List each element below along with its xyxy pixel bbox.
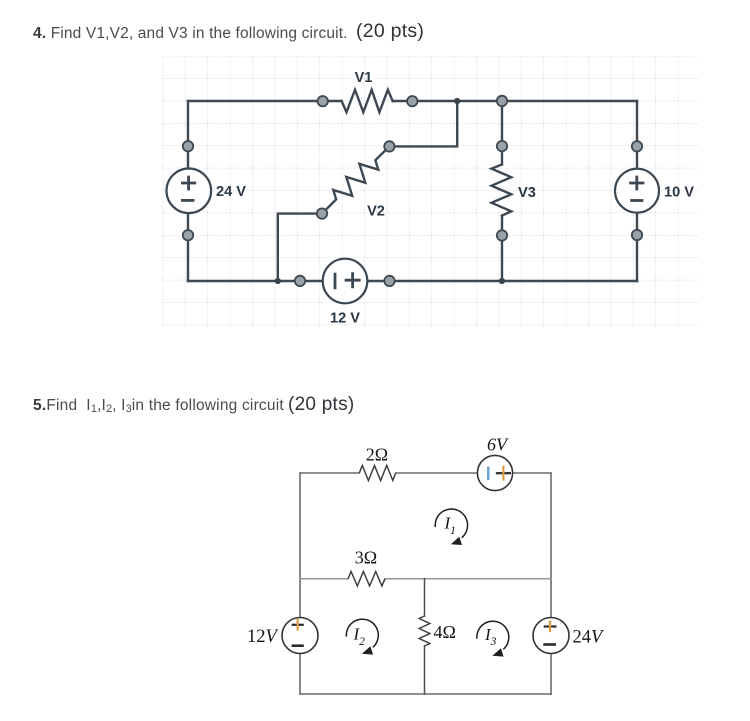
wire right-lower xyxy=(636,213,638,281)
source 24V circle xyxy=(533,618,569,654)
source 12V circle xyxy=(323,259,368,304)
6V minus bar (blue) xyxy=(487,467,490,481)
wire V2 branch lower xyxy=(278,214,322,281)
24V minus sign xyxy=(543,643,556,646)
terminal dot 12V right xyxy=(384,276,394,286)
svg-text:I2: I2 xyxy=(353,625,366,648)
wire V3 lower stub xyxy=(501,216,503,281)
terminal dot 24V top xyxy=(183,141,193,151)
svg-text:12 V: 12 V xyxy=(330,311,360,327)
svg-text:10 V: 10 V xyxy=(664,184,694,200)
wire left-upper xyxy=(187,101,189,169)
svg-text:2Ω: 2Ω xyxy=(366,444,388,464)
terminal dot V2 upper xyxy=(384,141,394,151)
24V plus sign xyxy=(181,176,196,191)
24V plus sign xyxy=(544,625,557,627)
svg-text:4Ω: 4Ω xyxy=(434,622,456,642)
svg-text:24 V: 24 V xyxy=(216,184,246,200)
wire top-mid xyxy=(396,472,478,474)
wire bottom-left xyxy=(188,280,322,282)
source 10V circle xyxy=(615,169,659,213)
mesh arrow I3 head xyxy=(492,648,503,656)
junction node top xyxy=(454,98,460,104)
terminal dot V3 top xyxy=(497,141,507,151)
junction node bottom-left xyxy=(275,278,281,284)
svg-text:12V: 12V xyxy=(247,627,280,647)
10V plus sign xyxy=(629,176,644,191)
resistor 4ohm xyxy=(419,616,430,646)
wire right-lower xyxy=(550,653,552,694)
header problem 4 xyxy=(33,26,348,42)
header problem 5 xyxy=(33,398,284,415)
wire middle-right xyxy=(385,578,551,580)
6V plus sign xyxy=(496,472,511,474)
source 24V circle xyxy=(167,169,212,214)
source 12V circle xyxy=(282,618,318,654)
resistor V3 xyxy=(492,164,512,215)
wire left-upper xyxy=(299,473,301,618)
wire center vertical lower stub xyxy=(424,646,426,694)
wire center vertical upper stub xyxy=(424,579,426,616)
wire bottom-right xyxy=(368,280,637,282)
12V minus bar (rotated) xyxy=(334,273,337,290)
terminal dot V2 lower xyxy=(317,208,327,218)
mesh arrow I3 arc xyxy=(477,621,509,649)
wire top-left (mesh1) xyxy=(300,472,359,474)
mesh arrow I1 arc xyxy=(435,509,467,538)
svg-text:V2: V2 xyxy=(367,204,385,220)
resistor 3ohm xyxy=(348,572,385,587)
terminal dot V3 bottom xyxy=(497,230,507,240)
terminal dot top at V3 column xyxy=(497,96,507,106)
24V minus sign xyxy=(181,199,194,202)
wire left-lower xyxy=(299,654,301,695)
resistor V2 xyxy=(322,146,389,213)
terminal dot 10V top xyxy=(632,141,642,151)
terminal dot V1 right xyxy=(407,96,417,106)
12V plus sign xyxy=(345,272,361,288)
svg-text:V1: V1 xyxy=(355,70,373,86)
svg-text:24V: 24V xyxy=(573,627,606,647)
terminal dot 24V bottom xyxy=(183,230,193,240)
wire V2 branch upper xyxy=(389,101,457,146)
wire middle-left xyxy=(300,578,348,580)
wire top-right xyxy=(393,100,637,102)
mesh arrow I2 arc xyxy=(346,619,378,647)
wire right-upper xyxy=(636,101,638,169)
wire left-lower xyxy=(187,213,189,281)
12V plus sign xyxy=(292,624,304,626)
svg-text:6V: 6V xyxy=(487,434,509,454)
mesh arrow I2 head xyxy=(362,646,373,654)
source 6V circle xyxy=(477,455,512,490)
mesh arrow I1 head xyxy=(451,537,462,545)
svg-text:I1: I1 xyxy=(444,514,456,537)
resistor 2ohm xyxy=(359,466,395,481)
wire V3 upper stub xyxy=(501,101,503,164)
wire top-left xyxy=(188,100,342,102)
wire bottom xyxy=(300,693,551,695)
svg-text:3Ω: 3Ω xyxy=(355,547,377,567)
12V minus sign xyxy=(292,644,304,647)
terminal dot V1 left xyxy=(318,96,328,106)
junction node bottom V3 xyxy=(499,278,505,284)
wire right-upper xyxy=(550,473,552,618)
grid background panel xyxy=(162,56,699,327)
resistor V1 xyxy=(342,90,393,112)
terminal dot 10V bottom xyxy=(632,230,642,240)
svg-text:I3: I3 xyxy=(484,625,497,648)
terminal dot 12V left xyxy=(295,276,305,286)
10V minus sign xyxy=(630,199,643,202)
wire top-right xyxy=(513,472,551,474)
svg-text:V3: V3 xyxy=(518,185,536,201)
